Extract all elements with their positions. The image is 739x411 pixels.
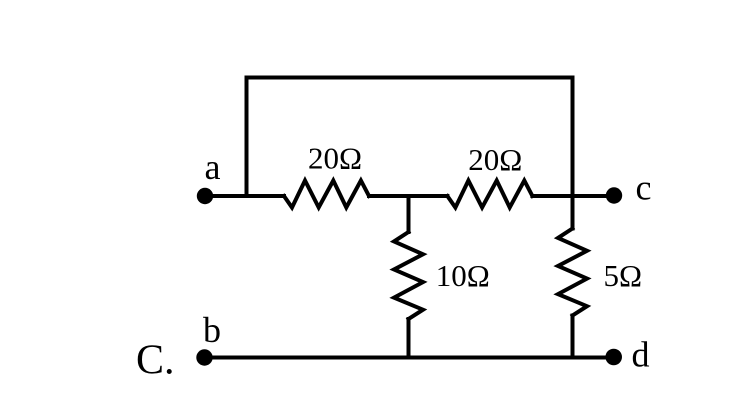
wire middle: R1 to R2 with node T junction [369, 194, 447, 198]
resistor R4 5Ω (vertical) [558, 229, 587, 316]
resistor R2 20Ω (right horizontal) [447, 181, 532, 208]
node b terminal dot [196, 349, 212, 365]
svg-text:d: d [632, 334, 650, 374]
resistor R1 20Ω (left horizontal) [284, 181, 369, 208]
resistor R3 10Ω (vertical) [394, 232, 423, 319]
node a terminal dot [197, 188, 213, 204]
svg-text:10Ω: 10Ω [436, 258, 490, 293]
svg-text:5Ω: 5Ω [604, 258, 643, 293]
svg-text:c: c [636, 168, 652, 208]
node c terminal dot [606, 187, 622, 203]
node d terminal dot [605, 349, 622, 366]
wire: R4 to bottom rail [571, 316, 575, 358]
svg-text:a: a [205, 147, 221, 187]
wire top loop: a-node up, across, down to c-column [247, 78, 573, 229]
svg-text:b: b [203, 310, 221, 350]
svg-text:20Ω: 20Ω [468, 142, 522, 177]
wire middle: node a to resistor R1 [205, 194, 284, 198]
wire: middle node down to R3 [407, 196, 411, 232]
wire bottom rail: b to d [205, 356, 614, 360]
svg-text:C.: C. [136, 338, 175, 384]
wire middle: R2 to node c [532, 194, 614, 198]
wire: R3 to bottom rail [407, 319, 411, 358]
svg-text:20Ω: 20Ω [308, 141, 362, 176]
